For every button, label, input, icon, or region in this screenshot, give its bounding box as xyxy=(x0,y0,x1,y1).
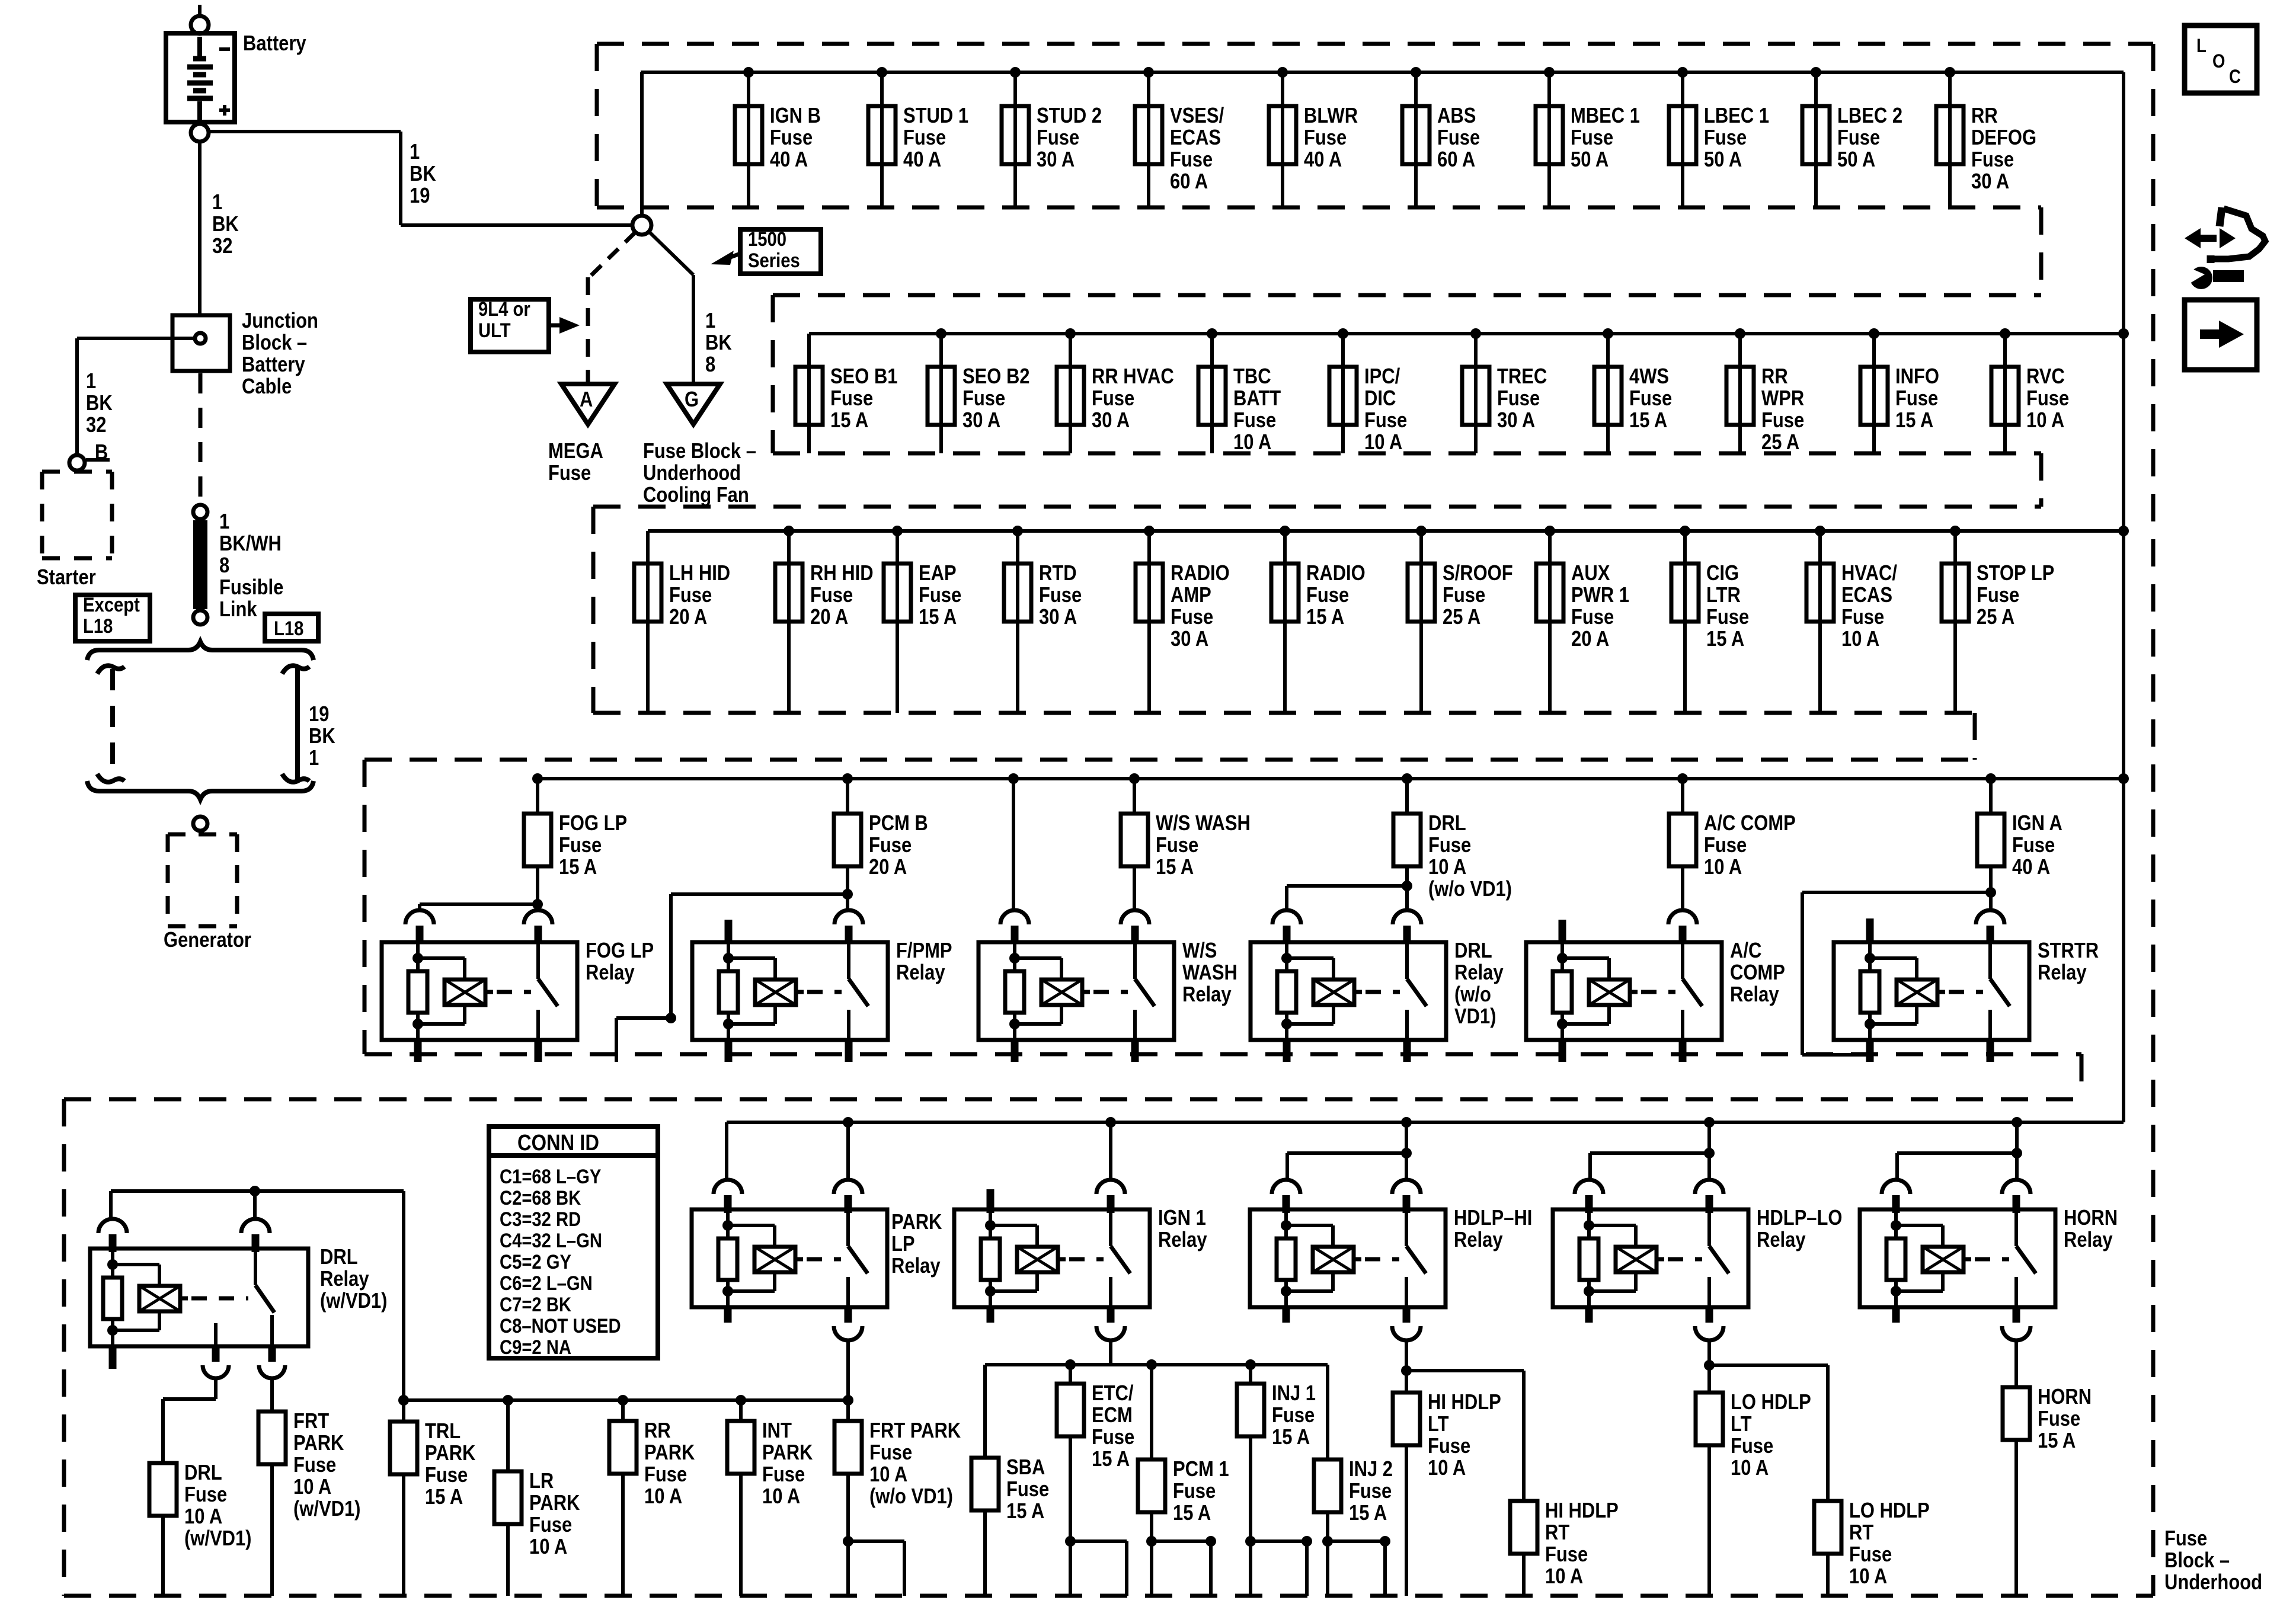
fuse TBC BATT 10 A xyxy=(1198,367,1226,425)
svg-text:Fuse: Fuse xyxy=(1971,148,2014,172)
junction node DRL fuse xyxy=(1402,773,1412,784)
svg-text:15 A: 15 A xyxy=(2038,1429,2076,1453)
junction block label xyxy=(242,309,318,399)
connector arc HORN switch xyxy=(2002,1180,2030,1213)
svg-text:10 A: 10 A xyxy=(1364,431,1402,454)
svg-text:Relay: Relay xyxy=(1730,983,1779,1007)
junction node LO HDLP xyxy=(1704,1360,1715,1371)
fuse HI HDLP LT 10 A xyxy=(1393,1393,1420,1445)
junction node HI HDLP xyxy=(1401,1365,1412,1376)
svg-text:Fuse: Fuse xyxy=(1443,584,1485,607)
svg-text:50 A: 50 A xyxy=(1704,148,1742,172)
svg-text:15 A: 15 A xyxy=(1272,1426,1310,1449)
fuse STOP LP 25 A xyxy=(1942,564,1969,622)
wire HORN fuse to border xyxy=(2014,1440,2018,1596)
svg-text:Underhood: Underhood xyxy=(2164,1571,2262,1595)
wire TRL PARK fuse xyxy=(402,1400,405,1422)
svg-text:RR HVAC: RR HVAC xyxy=(1092,365,1174,389)
wire HDLP-LO switch down xyxy=(1707,1339,1711,1393)
wire HORN coil subfeed xyxy=(1897,1153,2017,1181)
wire fuse RADIO xyxy=(1283,531,1287,713)
fuse EAP 15 A xyxy=(884,564,911,622)
junction node TREC xyxy=(1470,328,1481,339)
fuse LO HDLP LT 10 A xyxy=(1696,1393,1723,1445)
HDLP-LO bottom stubs xyxy=(1589,1306,1709,1323)
label 1 BK 19 xyxy=(410,140,436,208)
fusible link top circle xyxy=(193,505,207,519)
svg-text:15 A: 15 A xyxy=(1629,409,1667,433)
wire battery to junction block 1 BK 32 xyxy=(198,142,202,317)
svg-text:Fusible: Fusible xyxy=(219,576,283,600)
svg-text:30 A: 30 A xyxy=(1037,148,1075,172)
wire W/S WASH coil feed xyxy=(1012,779,1015,911)
wire FRT PARK w/VD1 to border xyxy=(270,1464,274,1596)
IGN 1 bottom stubs xyxy=(990,1306,1111,1323)
wire LO HDLP RT to border xyxy=(1826,1554,1830,1596)
connector arc HDLP-HI switch xyxy=(1392,1180,1421,1213)
wire to DRL fuse xyxy=(163,1377,216,1463)
fusible link bar xyxy=(193,520,207,609)
wire DRL w/VD1 switch feed xyxy=(253,1191,257,1218)
svg-text:Battery: Battery xyxy=(242,353,305,377)
label fuse FRT PARK xyxy=(869,1419,961,1509)
wire TRL PARK to border xyxy=(402,1474,405,1596)
wire PARK LP switch feed xyxy=(846,1122,850,1181)
label fuse IGN B xyxy=(770,104,821,172)
battery label xyxy=(243,32,306,56)
svg-text:LH HID: LH HID xyxy=(669,562,730,585)
svg-text:Fuse: Fuse xyxy=(919,584,961,607)
generator label xyxy=(164,929,251,952)
next page arrow icon xyxy=(2185,300,2257,370)
label fuse RR PARK xyxy=(644,1419,695,1509)
svg-text:8: 8 xyxy=(705,353,715,377)
svg-text:HORN: HORN xyxy=(2064,1206,2118,1230)
junction node RR HVAC xyxy=(1065,328,1076,339)
label 1 BK 32 (lower) xyxy=(86,370,113,437)
svg-text:RR: RR xyxy=(644,1419,671,1443)
svg-text:1: 1 xyxy=(410,140,420,164)
svg-text:Cable: Cable xyxy=(242,375,292,399)
label A/C COMP relay xyxy=(1730,939,1785,1007)
label fuse RADIO xyxy=(1306,562,1366,629)
svg-text:Fuse: Fuse xyxy=(1428,1435,1470,1458)
label fuse RVC xyxy=(2026,365,2069,433)
label fuse W/S WASH xyxy=(1156,812,1251,879)
svg-text:Fuse: Fuse xyxy=(810,584,853,607)
svg-text:STOP LP: STOP LP xyxy=(1977,562,2054,585)
junction node PCM B fuse xyxy=(842,773,853,784)
wire LO HDLP LT to border xyxy=(1707,1445,1711,1596)
wire fuse SEO B1 xyxy=(807,334,811,453)
svg-text:20 A: 20 A xyxy=(869,856,907,879)
junction node HDLP-HI subfeed xyxy=(1401,1148,1412,1158)
row1 bus wire xyxy=(641,71,2124,74)
svg-text:25 A: 25 A xyxy=(1977,606,2014,629)
svg-text:40 A: 40 A xyxy=(770,148,808,172)
label fuse 4WS xyxy=(1629,365,1672,433)
svg-text:L18: L18 xyxy=(274,617,303,640)
svg-text:10 A: 10 A xyxy=(1428,1457,1466,1480)
feed junction row2 xyxy=(2118,328,2129,339)
svg-text:TREC: TREC xyxy=(1497,365,1547,389)
svg-text:C9=2 NA: C9=2 NA xyxy=(500,1336,571,1359)
svg-text:A/C COMP: A/C COMP xyxy=(1704,812,1796,836)
wire fuse STOP LP xyxy=(1953,531,1957,713)
wire DRL fuse to border xyxy=(161,1516,165,1596)
svg-text:ABS: ABS xyxy=(1437,104,1476,128)
label fuse LO HDLP LT xyxy=(1731,1391,1811,1480)
fuse INT PARK 10 A xyxy=(727,1421,754,1474)
svg-text:19: 19 xyxy=(309,703,329,726)
label fuse INJ 1 xyxy=(1272,1382,1316,1449)
junction node HVAC/ ECAS xyxy=(1815,526,1825,536)
wire PARK LP switch to park bus xyxy=(846,1339,850,1400)
wire SBA to border xyxy=(983,1510,987,1596)
label fuse HORN xyxy=(2038,1385,2092,1453)
svg-text:S/ROOF: S/ROOF xyxy=(1443,562,1513,585)
wire junction block to starter xyxy=(77,338,195,454)
fuse RR PARK 10 A xyxy=(609,1421,637,1474)
svg-text:Fuse: Fuse xyxy=(1704,126,1747,150)
wire fuse EAP xyxy=(896,531,899,713)
fuse W/S WASH 15 A xyxy=(1121,814,1148,866)
label fuse TREC xyxy=(1497,365,1547,433)
battery plus sign xyxy=(219,105,230,116)
svg-text:Fuse: Fuse xyxy=(1039,584,1082,607)
svg-text:Fuse: Fuse xyxy=(559,834,602,857)
solid branch to fuse block G xyxy=(649,232,693,383)
svg-text:C3=32 RD: C3=32 RD xyxy=(500,1208,581,1231)
junction node BLWR xyxy=(1277,67,1288,78)
svg-text:RADIO: RADIO xyxy=(1171,562,1230,585)
fuse TRL PARK 15 A xyxy=(390,1422,417,1474)
wire HI HDLP RT to border xyxy=(1522,1554,1526,1596)
svg-text:Generator: Generator xyxy=(164,929,251,952)
wire INJ 2 fuse xyxy=(1326,1365,1329,1459)
svg-text:Fuse: Fuse xyxy=(669,584,712,607)
svg-text:10 A: 10 A xyxy=(1545,1565,1583,1589)
svg-text:INT: INT xyxy=(762,1419,792,1443)
fuse IPC/ DIC 10 A xyxy=(1329,367,1357,425)
svg-text:Fuse: Fuse xyxy=(1731,1435,1773,1458)
label fuse LO HDLP RT xyxy=(1849,1499,1930,1589)
wire INJ 1 fuse xyxy=(1249,1365,1252,1384)
relay HDLP-HI xyxy=(1250,1209,1446,1307)
fuse RADIO 15 A xyxy=(1271,564,1299,622)
wire W/S WASH fuse out xyxy=(1133,866,1136,911)
junction node LBEC 1 xyxy=(1677,67,1688,78)
label DRL w/VD1 relay xyxy=(320,1246,387,1313)
svg-text:60 A: 60 A xyxy=(1437,148,1475,172)
wire fuse CIG LTR xyxy=(1683,531,1687,713)
wire PCM 1 fuse xyxy=(1150,1365,1153,1459)
svg-text:PARK: PARK xyxy=(762,1441,813,1465)
svg-text:WASH: WASH xyxy=(1182,961,1237,985)
svg-text:Relay: Relay xyxy=(896,961,945,985)
wire HI HDLP LT to border xyxy=(1405,1445,1408,1596)
junction node IGN B xyxy=(743,67,754,78)
connector arc PARK LP coil xyxy=(714,1180,742,1213)
fuse block underhood cooling fan label xyxy=(643,440,756,507)
svg-text:TBC: TBC xyxy=(1233,365,1271,389)
battery minus sign xyxy=(219,47,230,51)
svg-text:Link: Link xyxy=(219,598,257,622)
wire fuse LBEC 2 xyxy=(1814,72,1818,207)
svg-text:HI HDLP: HI HDLP xyxy=(1545,1499,1619,1523)
junction node LBEC 2 xyxy=(1811,67,1821,78)
svg-text:MEGA: MEGA xyxy=(548,440,603,463)
junction node FOG LP fuse xyxy=(532,773,543,784)
wire INJ 1 loop xyxy=(1251,1436,1307,1596)
label fuse INT PARK xyxy=(762,1419,813,1509)
svg-text:Fuse: Fuse xyxy=(548,462,591,485)
svg-text:C6=2 L–GN: C6=2 L–GN xyxy=(500,1272,593,1295)
wire SBA fuse xyxy=(983,1365,987,1458)
wire FOG LP fuse xyxy=(536,779,539,814)
wire fuse TBC BATT xyxy=(1210,334,1214,453)
junction node RADIO xyxy=(1280,526,1290,536)
svg-text:Relay: Relay xyxy=(891,1254,941,1278)
svg-text:Junction: Junction xyxy=(242,309,318,333)
connector cup HDLP-LO switch xyxy=(1695,1326,1723,1340)
wire stub at starter xyxy=(86,458,110,462)
battery negative terminal circle xyxy=(191,16,209,34)
label fuse RTD xyxy=(1039,562,1082,629)
svg-text:Fuse: Fuse xyxy=(644,1463,687,1487)
fuse RR WPR 25 A xyxy=(1726,367,1754,425)
svg-text:Fuse: Fuse xyxy=(1629,387,1672,411)
junction node STUD 1 xyxy=(877,67,887,78)
wire PCM B fuse out xyxy=(846,866,849,911)
junction node PCM 1 xyxy=(1146,1359,1157,1370)
MEGA fuse label xyxy=(548,440,603,485)
fuse ABS 60 A xyxy=(1402,106,1430,164)
connector arc HDLP-LO switch xyxy=(1695,1180,1723,1213)
label fuse ABS xyxy=(1437,104,1480,172)
wire INT PARK to border xyxy=(739,1474,743,1596)
fuse LH HID 20 A xyxy=(634,564,661,622)
svg-text:Fuse: Fuse xyxy=(1437,126,1480,150)
label fuse INFO xyxy=(1895,365,1939,433)
svg-text:Fuse: Fuse xyxy=(962,387,1005,411)
fuse FOG LP 15 A xyxy=(524,814,551,866)
label fuse STUD 2 xyxy=(1037,104,1102,172)
junction node DRL w/VD1 switch xyxy=(250,1186,260,1196)
label fuse LR PARK xyxy=(529,1470,580,1559)
svg-text:STRTR: STRTR xyxy=(2038,939,2099,963)
svg-text:Relay: Relay xyxy=(1158,1228,1207,1252)
battery B+ box xyxy=(166,33,235,122)
FOG LP relay bottom stubs xyxy=(418,1039,538,1062)
svg-text:Fuse Block –: Fuse Block – xyxy=(643,440,756,463)
svg-text:32: 32 xyxy=(212,235,232,258)
svg-text:INJ 2: INJ 2 xyxy=(1349,1458,1393,1481)
label HORN relay xyxy=(2064,1206,2118,1252)
svg-text:IGN A: IGN A xyxy=(2012,812,2062,836)
svg-text:8: 8 xyxy=(219,554,229,578)
row2 bus wire xyxy=(809,332,2124,335)
wire TRL PARK riser xyxy=(402,1191,405,1400)
wire IGN A branch to STRTR coil xyxy=(1802,892,1991,1055)
label fuse TBC BATT xyxy=(1233,365,1281,454)
svg-text:Fuse: Fuse xyxy=(2026,387,2069,411)
junction node HDLP-LO subfeed xyxy=(1704,1148,1715,1158)
label fuse IGN A xyxy=(2012,812,2062,879)
connector arc PARK LP switch xyxy=(834,1180,862,1213)
svg-text:PWR 1: PWR 1 xyxy=(1571,584,1629,607)
junction node CIG LTR xyxy=(1680,526,1690,536)
bottom brace xyxy=(87,781,314,799)
svg-text:PARK: PARK xyxy=(644,1441,695,1465)
junction node TRL PARK xyxy=(398,1395,409,1406)
wire PCM B branch to connector xyxy=(616,894,848,1062)
fuse PCM B 20 A xyxy=(834,814,861,866)
fuse RH HID 20 A xyxy=(775,564,802,622)
junction node LR PARK xyxy=(503,1395,513,1406)
junction node HDLP-HI feed xyxy=(1401,1117,1412,1128)
fuse DRL (w/VD1) 10 A xyxy=(149,1463,177,1516)
svg-text:Fuse: Fuse xyxy=(1092,387,1134,411)
wire HI HDLP RT branch xyxy=(1406,1371,1524,1501)
svg-text:PARK: PARK xyxy=(891,1211,942,1234)
svg-text:(w/o VD1): (w/o VD1) xyxy=(869,1485,953,1509)
wire HDLP-HI feed xyxy=(1405,1122,1408,1181)
svg-text:15 A: 15 A xyxy=(1706,628,1744,651)
junction node VSES/ ECAS xyxy=(1143,67,1154,78)
svg-text:ECM: ECM xyxy=(1092,1404,1133,1427)
label 1 BK 8 xyxy=(705,309,732,377)
junction node RR DEFOG xyxy=(1945,67,1955,78)
svg-text:PARK: PARK xyxy=(425,1442,475,1465)
wire fuse RR HVAC xyxy=(1069,334,1072,453)
svg-text:DIC: DIC xyxy=(1364,387,1396,411)
wire fuse S/ROOF xyxy=(1419,531,1423,713)
junction node DRL out xyxy=(1402,881,1412,891)
wire fuse RADIO AMP xyxy=(1147,531,1151,713)
svg-text:STUD 2: STUD 2 xyxy=(1037,104,1102,128)
label fuse RH HID xyxy=(810,562,874,629)
svg-text:BK: BK xyxy=(309,725,335,748)
svg-text:50 A: 50 A xyxy=(1837,148,1875,172)
junction node INFO xyxy=(1869,328,1879,339)
wire RR PARK fuse xyxy=(621,1400,625,1421)
wire fuse IPC/ DIC xyxy=(1341,334,1345,453)
junction node INT PARK xyxy=(736,1395,746,1406)
wire ETC/ECM loop xyxy=(1070,1436,1127,1596)
fuse FRT PARK 10 A xyxy=(834,1421,862,1474)
label fuse PCM B xyxy=(869,812,928,879)
fuse S/ROOF 25 A xyxy=(1408,564,1435,622)
svg-text:10 A: 10 A xyxy=(1704,856,1742,879)
starter box (dashed) xyxy=(42,472,112,558)
svg-text:INFO: INFO xyxy=(1895,365,1939,389)
svg-text:BK: BK xyxy=(705,331,732,355)
svg-text:AUX: AUX xyxy=(1571,562,1610,585)
fuse PCM 1 15 A xyxy=(1138,1459,1165,1512)
svg-text:4WS: 4WS xyxy=(1629,365,1669,389)
fuse LBEC 1 50 A xyxy=(1669,106,1696,164)
svg-text:Fuse: Fuse xyxy=(184,1483,227,1507)
relay row bus wire xyxy=(538,777,2124,780)
wire DRL w/VD1 coil feed xyxy=(109,1191,113,1218)
svg-text:30 A: 30 A xyxy=(1497,409,1535,433)
svg-text:Fuse: Fuse xyxy=(1349,1480,1392,1503)
svg-text:Fuse: Fuse xyxy=(2164,1527,2207,1551)
junction node HORN subfeed xyxy=(2012,1148,2022,1158)
connector arc HDLP-LO coil xyxy=(1575,1180,1603,1213)
DRL w/VD1 bottom stubs xyxy=(113,1345,272,1369)
wire LO HDLP RT branch xyxy=(1709,1365,1828,1501)
label fuse LBEC 1 xyxy=(1704,104,1769,172)
wire fuse INFO xyxy=(1872,334,1876,453)
svg-text:Fuse: Fuse xyxy=(1849,1543,1892,1567)
svg-text:RT: RT xyxy=(1849,1521,1874,1545)
svg-text:PARK: PARK xyxy=(529,1491,580,1515)
svg-text:15 A: 15 A xyxy=(425,1486,463,1509)
svg-text:15 A: 15 A xyxy=(1092,1448,1130,1471)
junction node PCM B out xyxy=(842,889,853,900)
A/C COMP coil stub xyxy=(1559,920,1566,943)
wire junction block to fusible link (dashed) xyxy=(199,373,203,504)
svg-text:20 A: 20 A xyxy=(810,606,848,629)
svg-text:RVC: RVC xyxy=(2026,365,2065,389)
fuse MBEC 1 50 A xyxy=(1536,106,1563,164)
wire DRL fuse xyxy=(1405,779,1409,814)
svg-text:15 A: 15 A xyxy=(1006,1500,1044,1523)
label fuse HI HDLP RT xyxy=(1545,1499,1619,1589)
svg-text:Fuse: Fuse xyxy=(830,387,873,411)
svg-text:(w/VD1): (w/VD1) xyxy=(184,1527,251,1551)
svg-text:50 A: 50 A xyxy=(1571,148,1609,172)
svg-text:10 A: 10 A xyxy=(1841,628,1879,651)
svg-text:30 A: 30 A xyxy=(1171,628,1208,651)
junction node STOP LP xyxy=(1950,526,1961,536)
connector arc FOG LP coil xyxy=(405,910,434,943)
svg-text:Fuse: Fuse xyxy=(1704,834,1747,857)
junction node RR PARK xyxy=(618,1395,628,1406)
connector cup DRL w/VD1 right xyxy=(259,1365,285,1378)
svg-text:EAP: EAP xyxy=(919,562,957,585)
svg-text:Fuse: Fuse xyxy=(1233,409,1276,433)
wire IGN A fuse out xyxy=(1989,866,1993,911)
svg-text:Relay: Relay xyxy=(1182,983,1232,1007)
label fuse SBA xyxy=(1006,1456,1049,1523)
fuse INJ 2 15 A xyxy=(1314,1459,1341,1512)
fuse block underhood label xyxy=(2164,1527,2262,1595)
svg-text:F/PMP: F/PMP xyxy=(896,939,952,963)
svg-text:10 A: 10 A xyxy=(293,1475,331,1499)
fuse RR HVAC 30 A xyxy=(1057,367,1084,425)
svg-text:10 A: 10 A xyxy=(2026,409,2064,433)
svg-text:60 A: 60 A xyxy=(1170,170,1208,194)
label HDLP-LO relay xyxy=(1757,1206,1842,1252)
fuse HVAC/ ECAS 10 A xyxy=(1806,564,1834,622)
svg-text:Fuse: Fuse xyxy=(1170,148,1213,172)
svg-text:Fuse: Fuse xyxy=(869,1441,912,1465)
label fuse A/C COMP xyxy=(1704,812,1796,879)
junction node IGN 1 switch xyxy=(1105,1117,1116,1128)
wire fuse ABS xyxy=(1414,72,1418,207)
svg-text:Fuse: Fuse xyxy=(1706,606,1749,629)
triangle connector G xyxy=(667,384,720,424)
junction node A/C COMP fuse xyxy=(1677,773,1688,784)
svg-text:Relay: Relay xyxy=(320,1267,369,1291)
fuse RADIO AMP 30 A xyxy=(1136,564,1163,622)
wire HORN feed xyxy=(2015,1122,2019,1181)
starter label xyxy=(37,566,96,590)
svg-text:15 A: 15 A xyxy=(1306,606,1344,629)
